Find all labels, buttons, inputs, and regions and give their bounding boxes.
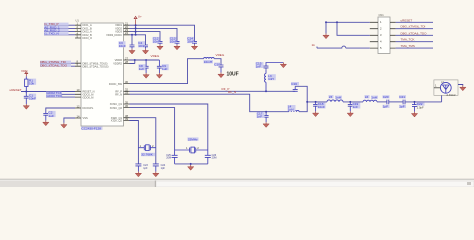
svg-text:VDD: VDD bbox=[21, 69, 28, 73]
wire VDD2 row to C6 bbox=[130, 28, 178, 40]
wire net row 4 left bbox=[44, 34, 75, 36]
svg-text:XOSC_Q2: XOSC_Q2 bbox=[110, 106, 123, 110]
ground below C1 bbox=[23, 104, 29, 109]
wire L4 up to output node bbox=[299, 102, 307, 112]
wire L6 to C20 bbox=[377, 101, 387, 103]
svg-text:24: 24 bbox=[125, 31, 128, 35]
wire DBG TDO bbox=[40, 65, 75, 67]
capacitor C1 bbox=[24, 92, 29, 105]
svg-text:39: 39 bbox=[125, 117, 128, 121]
wire GDO2 bbox=[46, 93, 75, 95]
capacitor C26 bbox=[205, 150, 211, 164]
crystal X1 bbox=[138, 145, 155, 151]
svg-text:DBG_I(TDA&_TDO: DBG_I(TDA&_TDO bbox=[401, 31, 428, 35]
svg-text:VDDR2: VDDR2 bbox=[113, 62, 122, 66]
wire stub C3 bbox=[131, 35, 133, 45]
ic U1 left pin numbers bbox=[77, 22, 80, 119]
net label GDO0_TDO bbox=[46, 94, 63, 98]
net label VREG right bbox=[216, 53, 225, 57]
svg-text:uRESET: uRESET bbox=[401, 18, 413, 22]
capacitor C9 bbox=[157, 60, 162, 73]
wire VDD collector vertical bbox=[135, 25, 137, 35]
ic U1 right pin labels bbox=[106, 23, 122, 123]
capacitor C21 series bbox=[403, 100, 442, 105]
antenna label 2.4GHz bbox=[447, 93, 457, 97]
ground below C8 bbox=[143, 73, 149, 78]
svg-text:1uF: 1uF bbox=[139, 67, 144, 71]
C19 value label bbox=[352, 102, 360, 109]
svg-text:2.4GHz: 2.4GHz bbox=[447, 93, 457, 97]
svg-text:1nH: 1nH bbox=[371, 95, 377, 99]
svg-text:CN1: CN1 bbox=[379, 13, 385, 17]
connector CN1 pin numbers bbox=[380, 20, 382, 50]
wire VDD1 row to C7 bbox=[130, 25, 195, 40]
C24 value label bbox=[161, 164, 166, 170]
capacitor C22 shunt bbox=[412, 102, 417, 112]
ground below C10 bbox=[218, 73, 224, 78]
svg-text:DCDC_SW: DCDC_SW bbox=[109, 82, 123, 86]
node VDD junctions bbox=[131, 24, 137, 36]
X2 value label bbox=[188, 137, 199, 141]
wire uRESET bbox=[21, 91, 75, 93]
wire VDD_DCDC row to C4 bbox=[130, 35, 146, 45]
svg-text:VDDR: VDDR bbox=[115, 58, 122, 62]
svg-text:TMA_TCK: TMA_TCK bbox=[401, 38, 415, 42]
ic U1 right pin numbers bbox=[125, 22, 128, 121]
C20 value label bbox=[383, 95, 390, 109]
svg-text:I1_TXD_N: I1_TXD_N bbox=[44, 32, 58, 36]
C17 value label bbox=[257, 112, 265, 119]
svg-text:VDD3_DCDC: VDD3_DCDC bbox=[106, 33, 122, 37]
svg-text:1nF: 1nF bbox=[256, 65, 261, 69]
X1 pin numbers bbox=[140, 144, 154, 148]
svg-text:10: 10 bbox=[77, 88, 80, 92]
C7 value label bbox=[187, 37, 194, 44]
svg-text:C16: C16 bbox=[291, 82, 297, 86]
capacitor C2 DCOUPL bbox=[43, 112, 48, 121]
wire CN1 pin5 bbox=[317, 46, 370, 48]
X1 value label bbox=[141, 153, 155, 157]
C5 value label bbox=[153, 37, 160, 44]
L6 value label bbox=[365, 95, 379, 99]
wire RF_P bbox=[130, 90, 296, 92]
C22 value label bbox=[417, 102, 425, 109]
svg-text:C22: C22 bbox=[417, 102, 423, 106]
power VDD above R1 bbox=[21, 69, 28, 76]
capacitor C18 shunt bbox=[313, 102, 318, 112]
inductor L6 bbox=[363, 100, 377, 102]
ic U1 right pin stubs bbox=[124, 25, 130, 120]
net label RF_N bbox=[228, 90, 236, 94]
svg-text:32.768K: 32.768K bbox=[141, 153, 153, 157]
ic U1 body bbox=[76, 19, 124, 127]
ground below DCOUPL cap bbox=[43, 121, 49, 126]
wire CN1 net uRESET bbox=[396, 18, 433, 22]
svg-text:XOSC_Q1: XOSC_Q1 bbox=[110, 102, 123, 106]
ground right of antenna bbox=[458, 85, 466, 91]
wire X32K_Q1 to X1 right bbox=[130, 118, 156, 164]
svg-text:TMA_TMS: TMA_TMS bbox=[401, 44, 415, 48]
capacitor C5 bbox=[158, 40, 163, 44]
net label uRESET bbox=[10, 88, 22, 92]
wire XOSC_Q2 to X2 left bbox=[130, 108, 175, 150]
wire CN1 net TMA TCK bbox=[396, 38, 433, 42]
svg-text:uRESET: uRESET bbox=[10, 88, 22, 92]
wire L5 to C19 bbox=[343, 101, 363, 103]
svg-text:10mH: 10mH bbox=[204, 60, 212, 64]
ground below C6 bbox=[174, 45, 180, 50]
svg-text:1pF: 1pF bbox=[383, 105, 388, 109]
C26 value label bbox=[212, 154, 217, 160]
svg-text:1uF: 1uF bbox=[162, 67, 167, 71]
wire RF_N bbox=[130, 94, 289, 112]
wire to antenna bbox=[441, 95, 443, 102]
svg-text:1nF: 1nF bbox=[353, 105, 358, 109]
wire GDO0 bbox=[46, 96, 75, 98]
antenna A1 box bbox=[434, 80, 458, 96]
capacitor C8 bbox=[144, 60, 149, 73]
wire VREG rail bbox=[135, 59, 160, 61]
wire DBG TDI bbox=[40, 62, 75, 64]
node uRESET junction bbox=[25, 91, 27, 93]
svg-text:10nF: 10nF bbox=[170, 40, 177, 44]
wire VSS bbox=[64, 118, 75, 123]
net label GDO2_TCK bbox=[46, 91, 63, 95]
capacitor C25 bbox=[172, 150, 178, 164]
connector CN1 body bbox=[378, 13, 390, 54]
wire X32K_Q2 to X1 left bbox=[130, 121, 139, 164]
net label DBG_I(TDA&_TDO) bbox=[40, 63, 71, 67]
svg-text:GDO0_M: GDO0_M bbox=[83, 95, 94, 99]
svg-text:DBG_I(TDA&_TDO(S): DBG_I(TDA&_TDO(S) bbox=[83, 64, 109, 68]
svg-text:1nH: 1nH bbox=[288, 108, 294, 112]
svg-text:2.0pF: 2.0pF bbox=[417, 106, 424, 110]
ground below C5 bbox=[157, 45, 163, 50]
C10 value label 10UF bbox=[227, 72, 239, 78]
svg-text:1pF: 1pF bbox=[399, 105, 404, 109]
svg-text:1nH: 1nH bbox=[335, 95, 341, 99]
svg-text:1nF: 1nF bbox=[257, 115, 262, 119]
node RF_P balun junction bbox=[265, 90, 267, 92]
node X2 rail junction bbox=[190, 163, 192, 165]
C18 value label bbox=[318, 102, 326, 109]
X2 pin numbers bbox=[186, 146, 199, 150]
svg-text:C21: C21 bbox=[399, 95, 405, 99]
wire CN1 pin1-pin3 vertical bbox=[337, 22, 370, 35]
node C17 junction bbox=[265, 111, 267, 113]
node C22 junction bbox=[414, 101, 416, 103]
C10 ref label bbox=[214, 62, 220, 66]
ground right of C15 bbox=[280, 63, 286, 68]
capacitor C3 bbox=[130, 45, 135, 49]
wire CN1 net DBG TDO bbox=[396, 31, 433, 35]
svg-text:10nF: 10nF bbox=[138, 44, 145, 48]
ic U1 left pin labels bbox=[83, 23, 109, 120]
svg-text:DIO3_O: DIO3_O bbox=[83, 36, 93, 40]
svg-text:RF_N: RF_N bbox=[228, 90, 236, 94]
inductor L2 bbox=[204, 57, 215, 58]
svg-text:U+: U+ bbox=[138, 15, 142, 19]
C4 value label bbox=[138, 41, 145, 48]
wire DCDC_SW bbox=[130, 59, 204, 84]
ic U1 part number CC2430 bbox=[81, 127, 103, 131]
svg-text:33: 33 bbox=[125, 91, 128, 95]
svg-text:VREG: VREG bbox=[151, 54, 160, 58]
ground below C24 bbox=[153, 172, 159, 177]
C3 value label bbox=[119, 41, 126, 48]
svg-text:10nF: 10nF bbox=[153, 40, 160, 44]
svg-text:GDO0 TDO: GDO0 TDO bbox=[46, 94, 63, 98]
svg-text:30: 30 bbox=[125, 80, 128, 84]
L3 value label bbox=[268, 74, 276, 81]
C25 value label bbox=[166, 154, 171, 160]
capacitor C6 bbox=[175, 40, 180, 44]
R1 value label bbox=[29, 78, 36, 85]
wire net row 1 left bbox=[44, 24, 75, 26]
sheet background bbox=[0, 0, 474, 180]
wire CN1 pin1 left bbox=[326, 21, 370, 23]
capacitor C17 shunt lower bbox=[264, 112, 269, 123]
svg-text:32MHz: 32MHz bbox=[188, 137, 198, 141]
ground below C23 bbox=[135, 172, 141, 177]
connector CN1 left stubs bbox=[370, 22, 378, 48]
svg-text:C10: C10 bbox=[214, 62, 220, 66]
svg-text:10nF: 10nF bbox=[318, 105, 325, 109]
svg-text:CC2430-F128: CC2430-F128 bbox=[82, 127, 102, 131]
net label VREG left bbox=[151, 54, 160, 58]
svg-text:36: 36 bbox=[125, 104, 128, 108]
ground below C22 bbox=[411, 112, 417, 117]
ground stub CN1 bbox=[323, 22, 329, 38]
svg-text:1pF: 1pF bbox=[143, 167, 148, 170]
L4 value label bbox=[288, 105, 296, 112]
svg-text:1uF: 1uF bbox=[49, 114, 54, 118]
wire net row 2 left bbox=[44, 27, 75, 29]
antenna A1 symbol bbox=[434, 82, 451, 93]
svg-text:1nH: 1nH bbox=[268, 77, 274, 81]
svg-text:28: 28 bbox=[125, 60, 128, 64]
net label DBG_I(TMS&_TDI) bbox=[40, 60, 71, 64]
node output junctions bbox=[306, 101, 316, 103]
net label RF_P bbox=[222, 87, 230, 91]
L2 value label bbox=[204, 60, 214, 64]
svg-text:27: 27 bbox=[125, 56, 128, 60]
capacitor C19 shunt bbox=[348, 102, 353, 112]
wire CN1 net DBG TDI bbox=[396, 25, 433, 29]
svg-text:10nF: 10nF bbox=[187, 40, 194, 44]
power VDD above decoupling rail bbox=[134, 15, 142, 26]
svg-text:10nF: 10nF bbox=[29, 97, 36, 101]
inductor L4 lower bbox=[289, 110, 299, 111]
node C19 junction bbox=[349, 101, 351, 103]
svg-text:DCOUPL: DCOUPL bbox=[83, 106, 94, 110]
svg-text:VSS: VSS bbox=[83, 116, 88, 120]
capacitor C16 series balun bbox=[293, 86, 308, 102]
svg-text:L6: L6 bbox=[365, 95, 369, 99]
connector CN1 right stubs bbox=[390, 22, 396, 48]
capacitor C24 bbox=[153, 164, 159, 172]
wire RF output line bbox=[307, 101, 327, 103]
C1 value label bbox=[29, 93, 37, 100]
crystal X2 bbox=[175, 147, 208, 153]
svg-text:20M: 20M bbox=[166, 157, 171, 160]
C9 value label bbox=[162, 64, 169, 71]
capacitor C4 bbox=[143, 45, 148, 49]
wire DCOUPL bbox=[46, 108, 75, 112]
svg-text:VREG: VREG bbox=[216, 53, 225, 57]
net label I1_TXD_P bbox=[44, 22, 69, 26]
inductor L5 bbox=[327, 100, 343, 102]
ground below C18 bbox=[313, 111, 319, 116]
node VDDR junctions bbox=[134, 59, 147, 61]
resistor R1 bbox=[25, 76, 28, 91]
svg-text:DBG_I(TDA&_TDO: DBG_I(TDA&_TDO bbox=[40, 63, 67, 67]
wire X2 cap common rail bbox=[175, 163, 208, 165]
C21 value label bbox=[399, 95, 406, 109]
ground below C3 bbox=[129, 49, 135, 54]
ic U1 left pin stubs bbox=[75, 25, 81, 118]
wire VDD3 row to C5 bbox=[130, 32, 161, 41]
svg-text:10UF: 10UF bbox=[227, 72, 239, 78]
ground below C4 bbox=[142, 49, 148, 54]
wire net row 3 left bbox=[44, 31, 75, 33]
svg-text:DBG_I(TMS&_TDI: DBG_I(TMS&_TDI bbox=[401, 25, 426, 29]
ground X2 rail bbox=[188, 164, 194, 170]
svg-text:35: 35 bbox=[125, 100, 128, 104]
svg-text:20M: 20M bbox=[212, 157, 217, 160]
svg-text:L5: L5 bbox=[329, 95, 333, 99]
node CN1 junctions bbox=[325, 21, 338, 23]
svg-text:RF_N: RF_N bbox=[115, 92, 122, 96]
svg-text:X32K_Q2: X32K_Q2 bbox=[111, 119, 123, 123]
C16 value label bbox=[291, 82, 299, 86]
window scrollbar band bbox=[0, 179, 474, 187]
wire L2 to VREG node bbox=[214, 59, 221, 64]
net label A0_RXD_2 bbox=[44, 29, 69, 33]
ground below C19 bbox=[347, 111, 353, 116]
net label A0_RXD_1 bbox=[44, 25, 69, 29]
svg-text:10nF: 10nF bbox=[119, 44, 126, 48]
svg-text:1pF: 1pF bbox=[161, 167, 166, 170]
C6 value label bbox=[170, 37, 177, 44]
wire VDDR pair vertical bbox=[130, 60, 135, 64]
svg-text:12: 12 bbox=[77, 105, 80, 109]
inductor L3 vertical bbox=[265, 69, 266, 91]
ground below C9 bbox=[156, 73, 162, 78]
capacitor C10 bulk bbox=[219, 64, 224, 73]
wire XOSC_Q1 to X2 right bbox=[130, 104, 208, 150]
C15 value label bbox=[256, 62, 264, 69]
capacitor C7 bbox=[192, 40, 197, 44]
capacitor C23 bbox=[135, 164, 141, 172]
ground below C7 bbox=[191, 45, 197, 50]
capacitor C20 series bbox=[387, 100, 403, 105]
net label 1k bbox=[312, 43, 316, 47]
net label I1_TXD_N bbox=[44, 32, 69, 36]
svg-text:14: 14 bbox=[77, 115, 80, 119]
L5 value label bbox=[329, 95, 343, 99]
wire CN1 net TMA TMS bbox=[396, 44, 433, 48]
svg-text:10k: 10k bbox=[29, 82, 34, 86]
ground VSS bbox=[61, 123, 67, 128]
ground below C17 bbox=[263, 122, 269, 127]
C2 value label bbox=[48, 111, 56, 118]
svg-text:C20: C20 bbox=[383, 95, 389, 99]
svg-text:1k: 1k bbox=[312, 43, 316, 47]
C23 value label bbox=[143, 164, 148, 170]
C8 value label bbox=[139, 64, 146, 71]
capacitor C15 top bbox=[264, 63, 284, 70]
